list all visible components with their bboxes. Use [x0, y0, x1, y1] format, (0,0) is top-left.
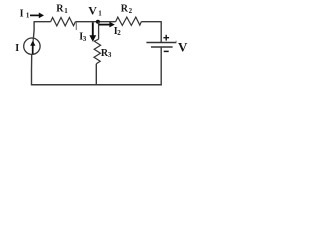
wire R3 top stub from node	[98, 22, 100, 39]
svg-text:V: V	[88, 3, 97, 17]
svg-text:1: 1	[64, 7, 68, 15]
resistor R2	[116, 17, 142, 25]
svg-text:R: R	[56, 4, 64, 15]
wire R3 bottom segment	[95, 64, 97, 85]
svg-text:3: 3	[83, 35, 87, 43]
current arrow I2 (pointing right, below wire)	[99, 24, 111, 26]
battery plus sign	[163, 37, 169, 39]
wire bottom horizontal	[31, 84, 162, 86]
battery V bottom plate (short, -)	[151, 46, 173, 48]
svg-text:V: V	[178, 40, 188, 55]
current arrow I3 (pointing down)	[92, 22, 94, 36]
wire top horizontal middle segment	[75, 21, 115, 23]
wire left vertical lower (current source to bottom corner)	[31, 54, 33, 85]
stray vertical stub artifact right of R1	[75, 22, 77, 30]
battery top plate end tick	[175, 41, 177, 43]
current arrow I1 (top left, pointing right)	[30, 14, 41, 16]
wire top horizontal right segment	[141, 21, 161, 23]
svg-text:I: I	[20, 8, 24, 19]
svg-text:3: 3	[108, 51, 112, 59]
resistor R3 (vertical)	[94, 39, 101, 64]
svg-text:2: 2	[129, 7, 133, 15]
node V1 junction dot	[96, 20, 100, 24]
resistor R1	[51, 18, 76, 26]
wire top horizontal left segment	[34, 21, 51, 23]
svg-text:1: 1	[26, 12, 30, 20]
wire right vertical lower (battery to bottom corner)	[160, 47, 162, 85]
current source I circle	[24, 38, 40, 54]
svg-text:R: R	[121, 4, 129, 15]
svg-text:1: 1	[98, 9, 102, 17]
wire left vertical upper (corner to current source)	[32, 21, 35, 38]
wire right vertical upper (corner to battery)	[160, 21, 162, 42]
battery V top plate (long, +)	[146, 42, 176, 44]
wire through current source circle	[32, 38, 35, 55]
svg-text:2: 2	[117, 29, 121, 37]
svg-text:I: I	[15, 43, 19, 54]
current source arrow (up)	[32, 45, 34, 54]
battery minus sign	[164, 50, 169, 52]
